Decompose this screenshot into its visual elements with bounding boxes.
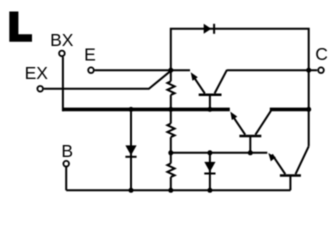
svg-text:C: C — [315, 44, 328, 64]
svg-text:EX: EX — [25, 63, 49, 83]
svg-text:B: B — [61, 141, 73, 161]
svg-text:BX: BX — [50, 30, 74, 50]
svg-text:E: E — [84, 44, 96, 64]
